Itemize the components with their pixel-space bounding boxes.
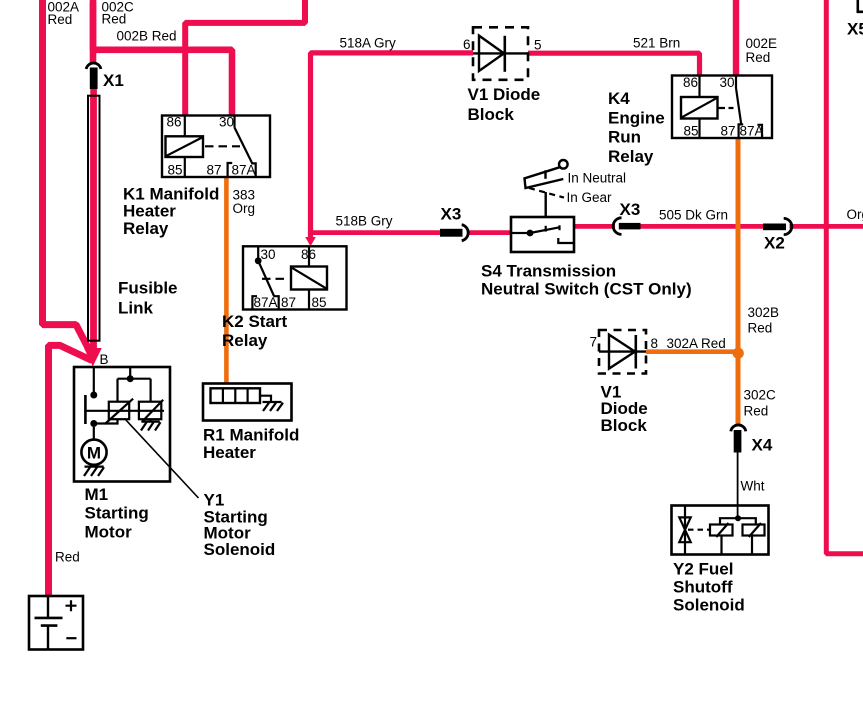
svg-text:86: 86 bbox=[301, 247, 316, 262]
svg-text:518A Gry: 518A Gry bbox=[340, 36, 397, 51]
svg-text:Solenoid: Solenoid bbox=[673, 596, 745, 615]
svg-text:K4: K4 bbox=[608, 89, 630, 108]
svg-text:B: B bbox=[100, 352, 109, 367]
svg-text:87A: 87A bbox=[740, 124, 764, 139]
svg-text:6: 6 bbox=[463, 37, 471, 52]
svg-text:7: 7 bbox=[590, 335, 598, 350]
svg-text:Motor: Motor bbox=[85, 523, 133, 542]
svg-text:Shutoff: Shutoff bbox=[673, 578, 733, 597]
svg-text:505 Dk Grn: 505 Dk Grn bbox=[659, 208, 728, 223]
svg-text:Red: Red bbox=[102, 12, 127, 27]
wire 383 Org K1 pin 87 to R1 bbox=[224, 178, 229, 384]
WIRES_PINK bbox=[43, 0, 863, 597]
callout line Y1 bbox=[125, 419, 199, 499]
wire right trunk bbox=[826, 0, 863, 554]
wire fusible link inner conductor bbox=[90, 97, 97, 353]
relay K2 bbox=[243, 246, 347, 309]
svg-text:X3: X3 bbox=[620, 200, 641, 219]
svg-text:302C: 302C bbox=[744, 388, 777, 403]
svg-text:Relay: Relay bbox=[608, 147, 654, 166]
svg-text:Relay: Relay bbox=[123, 219, 169, 238]
junction node 302 bbox=[733, 348, 744, 359]
svg-text:In Gear: In Gear bbox=[567, 190, 613, 205]
heater R1 manifold bbox=[203, 384, 292, 421]
svg-text:Org: Org bbox=[233, 201, 256, 216]
svg-text:V1 Diode: V1 Diode bbox=[468, 85, 541, 104]
wire X1 to fusible link stub bbox=[90, 88, 97, 98]
svg-text:30: 30 bbox=[261, 247, 276, 262]
connector X4 bbox=[731, 425, 746, 431]
svg-text:30: 30 bbox=[219, 115, 234, 130]
svg-text:8: 8 bbox=[651, 336, 659, 351]
svg-text:X3: X3 bbox=[441, 205, 462, 224]
wire battery to B junction bbox=[49, 345, 93, 597]
diode block V1 top bbox=[473, 27, 528, 80]
svg-text:X2: X2 bbox=[764, 234, 785, 253]
svg-text:87: 87 bbox=[207, 163, 222, 178]
wire 521 Brn to K4 pin 86 bbox=[528, 53, 700, 75]
wire X3 to S4 bbox=[469, 230, 511, 235]
svg-text:X5: X5 bbox=[847, 20, 863, 39]
svg-text:Block: Block bbox=[601, 416, 648, 435]
solenoid Y2 fuel shutoff bbox=[672, 506, 769, 555]
arrowhead at K2 pin 86 bbox=[305, 237, 316, 246]
svg-text:Red: Red bbox=[746, 50, 771, 65]
svg-text:002E: 002E bbox=[746, 36, 778, 51]
svg-text:87A: 87A bbox=[232, 163, 256, 178]
svg-text:Red: Red bbox=[748, 321, 773, 336]
connector X1 bbox=[86, 63, 101, 69]
relay K1 bbox=[162, 116, 270, 178]
svg-text:521 Brn: 521 Brn bbox=[633, 36, 680, 51]
wire 518A Gry and vertical drop to K2 pin 86 bbox=[311, 53, 474, 238]
wire 302A Red from diode block bbox=[646, 349, 738, 354]
svg-text:Red: Red bbox=[48, 12, 73, 27]
svg-text:Red: Red bbox=[744, 404, 769, 419]
svg-text:87: 87 bbox=[721, 124, 736, 139]
svg-text:86: 86 bbox=[683, 75, 698, 90]
battery G1 bbox=[29, 596, 83, 650]
svg-text:302A Red: 302A Red bbox=[667, 336, 726, 351]
WIRES_ORANGE bbox=[226, 139, 738, 425]
connector X3 left bbox=[440, 229, 463, 237]
svg-text:302B: 302B bbox=[748, 305, 780, 320]
wire 002E Red to K4 pin 30 bbox=[733, 0, 739, 76]
svg-text:Link: Link bbox=[118, 299, 153, 318]
wire top feed to K1 pin 86 bbox=[185, 0, 305, 116]
svg-text:R1 Manifold: R1 Manifold bbox=[203, 426, 299, 445]
svg-text:Engine: Engine bbox=[608, 109, 665, 128]
svg-text:Relay: Relay bbox=[222, 331, 268, 350]
svg-text:87: 87 bbox=[281, 295, 296, 310]
svg-text:85: 85 bbox=[168, 163, 183, 178]
svg-text:5: 5 bbox=[534, 38, 542, 53]
diode block V1 bottom bbox=[599, 330, 646, 374]
connector X5 corner mark bbox=[858, 0, 863, 12]
svg-text:87A: 87A bbox=[254, 295, 278, 310]
svg-text:Starting: Starting bbox=[85, 504, 149, 523]
connector X2 bbox=[763, 224, 786, 231]
svg-text:86: 86 bbox=[167, 115, 182, 130]
switch S4 transmission neutral bbox=[511, 160, 574, 252]
wire 302B/302C K4 pin 87 down to X4 bbox=[736, 139, 741, 425]
wire 002C vertical bbox=[90, 0, 97, 64]
svg-text:Run: Run bbox=[608, 128, 641, 147]
svg-text:85: 85 bbox=[312, 295, 327, 310]
svg-text:Heater: Heater bbox=[123, 202, 176, 221]
svg-text:S4 Transmission: S4 Transmission bbox=[481, 262, 616, 281]
wire X2 to right edge Org bbox=[790, 224, 863, 229]
svg-text:Heater: Heater bbox=[203, 443, 256, 462]
wire S4 to X3 right bbox=[574, 224, 615, 229]
wire Wht X4 to Y2 bbox=[737, 453, 739, 519]
motor M1 starting motor bbox=[74, 367, 170, 482]
svg-text:Red: Red bbox=[55, 550, 80, 565]
svg-text:M: M bbox=[87, 444, 101, 463]
svg-text:K2 Start: K2 Start bbox=[222, 312, 288, 331]
svg-text:Y2 Fuel: Y2 Fuel bbox=[673, 560, 733, 579]
svg-text:85: 85 bbox=[684, 124, 699, 139]
svg-text:518B Gry: 518B Gry bbox=[336, 214, 393, 229]
wire 518B Gry bbox=[308, 230, 441, 235]
svg-text:002B Red: 002B Red bbox=[117, 29, 177, 44]
svg-text:Block: Block bbox=[468, 105, 515, 124]
svg-text:Org: Org bbox=[847, 207, 863, 222]
svg-text:In Neutral: In Neutral bbox=[568, 171, 627, 186]
svg-text:X1: X1 bbox=[103, 71, 124, 90]
svg-text:X4: X4 bbox=[752, 436, 773, 455]
wire 002B Red horizontal to K1 pin 30 bbox=[93, 2, 232, 116]
svg-text:Fusible: Fusible bbox=[118, 279, 178, 298]
wire 002A trunk left bbox=[43, 0, 92, 355]
arrowhead at starting motor B terminal bbox=[84, 348, 102, 367]
svg-text:30: 30 bbox=[720, 75, 735, 90]
fusible link bbox=[88, 96, 100, 341]
wire 505 Dk Grn bbox=[640, 224, 764, 229]
relay K4 bbox=[672, 76, 772, 139]
connector X3 right bbox=[613, 218, 621, 235]
svg-text:Wht: Wht bbox=[741, 479, 765, 494]
svg-text:M1: M1 bbox=[85, 485, 109, 504]
svg-text:Solenoid: Solenoid bbox=[204, 540, 276, 559]
svg-text:Neutral Switch (CST Only): Neutral Switch (CST Only) bbox=[481, 280, 692, 299]
